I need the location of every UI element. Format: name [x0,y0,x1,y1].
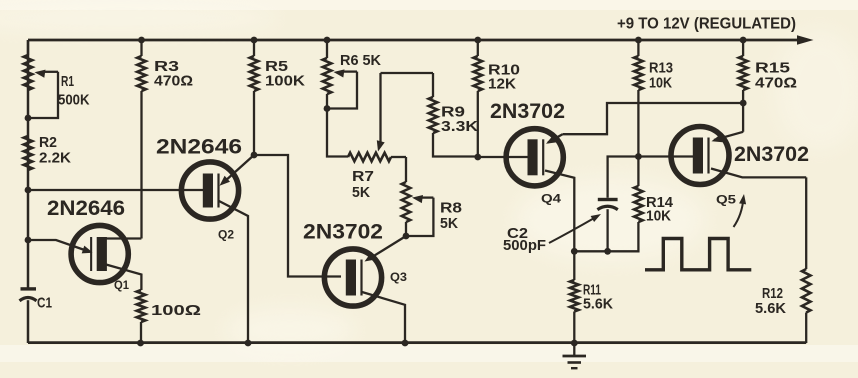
R6 rheostat loop wire [330,72,357,109]
svg-text:5K: 5K [352,184,370,201]
resistor R12 [802,177,811,343]
resistor R13 [634,40,643,90]
wire Q2 node to Q3 base [254,155,341,277]
svg-text:10K: 10K [649,74,672,91]
left rail wire [27,40,30,343]
Q5 emitter lead wire [714,132,743,140]
label R5 100K [265,58,305,90]
wire node to Q5 base [638,155,694,157]
label R12 5.6K [755,285,786,317]
svg-text:2N3702: 2N3702 [734,143,809,166]
capacitor C2 [597,198,617,252]
svg-text:100K: 100K [265,73,305,90]
svg-text:R1: R1 [61,73,74,90]
R5 lower wire [253,91,255,155]
resistor R8 [402,157,411,236]
svg-text:Q2: Q2 [218,228,234,242]
Q2 base1 lead wire [219,201,248,343]
svg-text:100Ω: 100Ω [151,302,201,319]
junction dot base node Q5 [635,153,642,160]
junction dot Q4 collector node [571,248,578,255]
Q3 collector lead wire [362,292,405,343]
label 100 ohm [151,302,201,319]
junction dot left rail to Q1 emitter [25,237,32,244]
label Q1 [114,278,129,292]
label 2N3702 (Q4) [490,100,565,123]
junction dot R3 top [138,37,145,44]
transistor Q4 2N3702 [506,129,563,186]
label R2 2.2K [39,134,71,167]
R6 wiper arrow [334,69,358,77]
svg-text:R8: R8 [440,200,462,217]
Q5 collector lead wire [711,169,806,178]
label R10 12K [488,62,520,93]
R8 wiper arrow [412,195,433,203]
svg-text:C1: C1 [37,295,52,312]
label R1 500K [58,73,90,109]
resistor R14 [574,157,642,252]
label Q5 [716,193,736,207]
wire R7 wiper to R9 [381,72,434,74]
junction dot R13 top [635,37,642,44]
svg-text:470Ω: 470Ω [154,73,193,90]
top rail arrowhead [797,35,814,45]
label C1 [37,295,52,312]
label R14 10K [646,194,674,225]
svg-text:5.6K: 5.6K [755,300,786,317]
svg-text:500K: 500K [58,92,90,109]
transistor Q3 2N3702 [324,249,381,306]
resistor R11 [570,251,579,343]
transistor Q5 2N3702 [671,127,729,185]
svg-text:Q5: Q5 [716,193,736,207]
C2 pointer arrow [549,214,601,243]
svg-text:2N2646: 2N2646 [47,197,125,220]
label R15 470 [755,60,797,92]
junction dot R10 top [474,37,481,44]
svg-text:10K: 10K [646,208,671,225]
Q4 collector lead wire [545,171,574,252]
svg-text:+9 TO 12V (REGULATED): +9 TO 12V (REGULATED) [617,16,796,33]
label R6 5K [340,52,381,69]
bottom ground rail [28,341,806,344]
Q1 emitter arrowhead [82,246,93,254]
output square wave symbol [645,239,751,270]
ground symbol [563,343,587,368]
label R9 3.3K [441,104,478,136]
svg-text:R2: R2 [39,134,57,151]
transistor Q2 2N2646 [181,162,238,219]
R15 lower wire [742,90,744,132]
svg-text:Q3: Q3 [390,270,407,284]
label R3 470 [154,58,193,90]
R7 right wire [391,156,406,158]
label Q2 [218,228,234,242]
Q4 emitter lead wire [548,134,563,142]
label +9 TO 12V (REGULATED) [617,16,796,33]
junction dot R8 tap [403,233,410,240]
junction dot R10-Q4 base [474,154,481,161]
svg-text:2.2K: 2.2K [39,150,71,167]
label C2 500pF [503,225,546,254]
resistor R10 [474,40,483,91]
junction dot left rail to Q2 base [25,187,32,194]
R7 wiper arrowhead [377,140,385,151]
resistor R3 [137,40,146,91]
svg-text:5K: 5K [440,215,458,232]
junction dot R6 tap [324,105,331,112]
resistor R15 [739,40,748,90]
label 2N2646 (Q1) [47,197,125,220]
lighter bottom band [0,345,858,362]
capacitor C1 [20,287,37,301]
wire Q4 emitter to R15 node [563,103,744,134]
resistor R9 [429,73,478,157]
label R13 10K [649,60,673,92]
Q3 emitter arrowhead [365,252,377,262]
R10 lower wire [477,91,479,157]
wire to Q4 base [478,156,528,158]
Q5 pointer arrow [734,194,747,227]
Q5 emitter arrowhead [712,134,723,142]
svg-text:Q4: Q4 [541,192,561,206]
junction dot Q3 ground [402,340,409,347]
label Q3 [390,270,407,284]
svg-text:2N3702: 2N3702 [303,221,383,244]
R1 wiper arrow [35,70,59,78]
Q3 emitter lead wire [368,236,406,260]
R8 rheostat loop wire [406,198,433,236]
junction dot R5 top [251,37,258,44]
svg-text:R6 5K: R6 5K [340,52,381,69]
junction dot Q2 b1 ground [245,340,252,347]
transistor Q1 2N2646 [71,225,128,282]
svg-text:R7: R7 [352,168,374,185]
label 2N2646 (Q2) [156,136,242,159]
wire C2 top [608,157,639,198]
svg-text:12K: 12K [488,76,516,93]
junction dot R15 top [740,37,747,44]
junction dot R11 ground [571,340,578,347]
junction dot R5-Q2 node [251,152,258,159]
wire to Q2 base [28,189,204,191]
junction dot R1 tap [25,115,32,122]
R7 wiper wire [379,73,381,143]
wire Q1 emitter [28,240,86,251]
resistor R1 [24,40,33,90]
svg-text:470Ω: 470Ω [755,75,797,92]
svg-text:2N3702: 2N3702 [490,100,565,123]
R6 lower wire [327,94,348,157]
label R8 5K [440,200,462,233]
lighter top band [0,0,858,10]
svg-text:Q1: Q1 [114,278,129,292]
label 2N3702 (Q5) [734,143,809,166]
Q2 emitter arrowhead [220,176,231,186]
resistor R7 [348,153,391,162]
Q2 emitter lead wire [224,155,254,182]
resistor R6 [323,40,332,94]
junction dot C2 bottom [604,248,611,255]
junction dot 100ohm ground [137,340,144,347]
R13 lower wire [637,90,639,157]
junction dot R6 top [324,37,331,44]
svg-text:3.3K: 3.3K [441,118,478,135]
svg-text:500pF: 500pF [503,237,546,254]
label Q4 [541,192,561,206]
100 ohm bottom wire [140,322,142,343]
R3 lower wire [140,91,142,239]
resistor R5 [250,40,259,91]
resistor 100 ohm [137,290,146,322]
R1 rheostat loop wire [31,72,58,118]
svg-text:5.6K: 5.6K [583,296,613,313]
label R7 5K [352,168,374,201]
Q4 emitter arrowhead [546,135,557,144]
top power rail +9-12V [28,39,799,42]
resistor R2 [24,136,33,170]
label 2N3702 (Q3) [303,221,383,244]
svg-text:2N2646: 2N2646 [156,136,242,159]
Q1 base2 lead wire [106,237,141,239]
junction dot R15-Q4 node [740,100,747,107]
label R11 5.6K [583,281,613,312]
Q1 base1 lead wire [106,265,141,291]
